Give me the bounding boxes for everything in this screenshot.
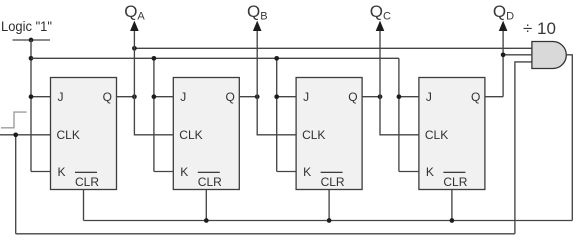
junction: QA node [132,94,137,99]
wire: K input FFD [399,171,419,173]
wire: Logic 1 drop for FFD [398,58,400,171]
wire: Logic 1 drop for FFC [276,58,278,171]
junction: QD tap to AND input 2 [501,52,506,57]
wire: K input FFB [154,171,173,173]
junction: QB node [255,94,260,99]
svg-text:CLR: CLR [198,175,222,189]
wire: feedback rail QA to AND gate input 1 [134,47,532,49]
svg-text:K: K [426,165,434,179]
wire: AND input 2 from QD [503,54,532,56]
clock input waveform symbol [1,112,27,128]
JK flip-flop FFA [51,78,117,190]
junction: J branch FFD [397,94,402,99]
junction: CLR bus tap FFB [204,218,209,223]
JK flip-flop FFB [173,78,239,190]
svg-text:Logic "1": Logic "1" [1,18,52,34]
junction: CLR bus tap FFC [327,218,332,223]
wire: K input FFA [31,171,51,173]
wire: clock drop to bottom feed line [15,135,17,234]
node QB output arrow [253,21,262,31]
junction: J branch FFC [274,94,279,99]
wire: J input FFA [31,96,51,98]
junction: Logic 1 rail tap FFC [274,56,279,61]
wire: Logic 1 drop for FFB [153,58,155,171]
svg-text:Q: Q [225,90,234,104]
svg-text:K: K [180,165,188,179]
junction: feedback rail at QA vertical [132,46,137,51]
wire: external clock into FF1 CLK [0,134,51,136]
JK flip-flop FFD [419,78,485,190]
wire: FF C CLR drop [328,190,330,221]
wire: FF D CLR drop [451,190,453,221]
wire: J input FFC [277,96,296,98]
svg-text:CLR: CLR [321,175,345,189]
wire: Q output FFC [362,96,380,98]
svg-text:CLK: CLK [179,128,202,142]
JK flip-flop FFC [296,78,362,190]
svg-text:K: K [58,165,66,179]
wire: Logic 1 drop to FF1 J and K [30,40,32,172]
node QC output arrow [376,21,385,31]
wire: FF A CLR drop [83,190,85,221]
svg-text:J: J [426,90,432,104]
svg-text:CLR: CLR [443,175,467,189]
svg-text:J: J [303,90,309,104]
wire: Logic 1 rail [31,57,399,59]
junction: clock line tap [13,132,18,137]
junction: CLR bus tap FFD [450,218,455,223]
wire: Q output FFB [239,96,257,98]
svg-text:÷ 10: ÷ 10 [523,19,556,38]
junction: J branch FFB [152,94,157,99]
wire: FF B CLR drop [205,190,207,221]
svg-text:Q: Q [348,90,357,104]
wire: QA to next stage CLK [134,30,173,135]
svg-text:Q: Q [103,90,112,104]
junction: J branch FFA [29,94,34,99]
svg-text:J: J [180,90,186,104]
wire: QD riser [502,30,504,97]
wire: Q output FFD [485,96,503,98]
wire: CLR bus [84,220,573,222]
wire: J input FFD [399,96,419,98]
node QD output arrow [499,21,508,31]
svg-text:CLK: CLK [57,128,80,142]
svg-text:CLK: CLK [302,128,325,142]
wire: Q output FFA [117,96,135,98]
wire: bottom clock feed line [16,233,515,235]
junction: Logic 1 bar [29,38,34,43]
svg-text:K: K [303,165,311,179]
wire: J input FFB [154,96,173,98]
wire: riser from bottom feed to AND gate input 3 [515,62,532,234]
wire: K input FFC [277,171,296,173]
node QA output arrow [130,21,139,31]
junction: Logic 1 rail tap FFB [152,56,157,61]
Logic "1" terminal bar [13,39,51,41]
wire: QC to next stage CLK [380,30,419,135]
wire: AND gate output to CLR bus [566,55,572,221]
svg-text:J: J [58,90,64,104]
svg-text:Q: Q [471,90,480,104]
junction: QC node [378,94,383,99]
svg-text:CLK: CLK [425,128,448,142]
svg-text:CLR: CLR [75,175,99,189]
wire: QB to next stage CLK [257,30,296,135]
junction: Logic 1 rail start [29,56,34,61]
AND gate U1 [532,42,566,69]
